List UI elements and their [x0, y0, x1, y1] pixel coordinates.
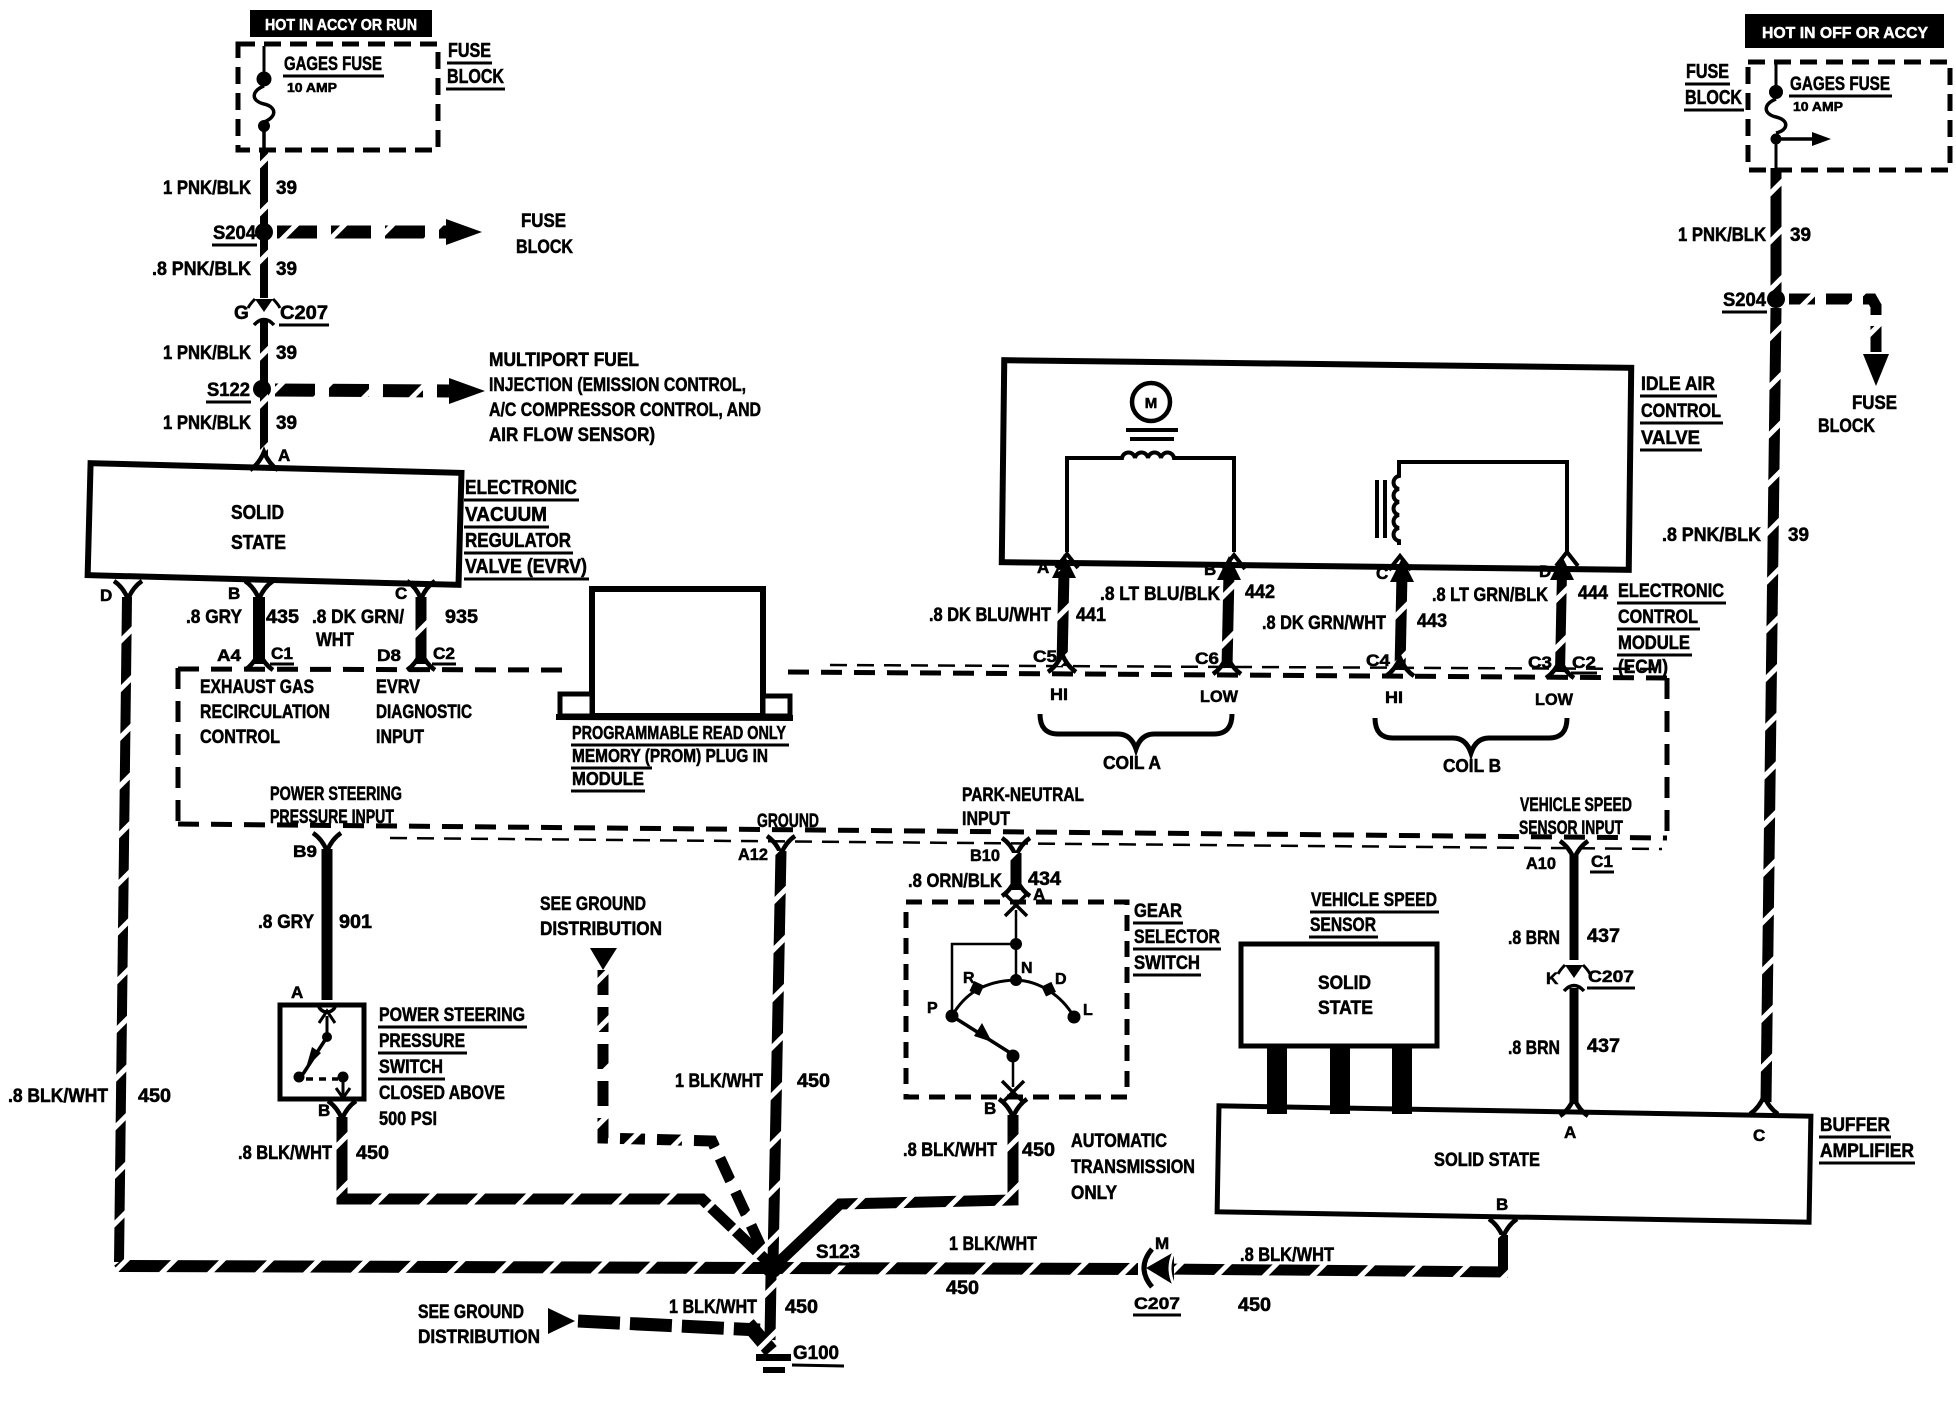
- svg-text:HI: HI: [1385, 688, 1403, 707]
- svg-text:ELECTRONIC: ELECTRONIC: [465, 477, 577, 499]
- label .8 BLK/WHT 450 (PS switch wire): [238, 1143, 389, 1164]
- label POWER STEERING PRESSURE INPUT (ECM): [270, 784, 402, 828]
- wire .8 ORN/BLK 434 (ECM B10 to gear selector A): [1011, 853, 1022, 890]
- svg-text:M: M: [1145, 395, 1158, 412]
- svg-text:.8 PNK/BLK: .8 PNK/BLK: [1662, 525, 1761, 546]
- label .8 BRN 437 (lower): [1508, 1036, 1620, 1059]
- svg-text:D: D: [100, 586, 112, 605]
- ECM dashed box top edge (left of PROM): [178, 669, 563, 670]
- svg-text:.8 LT BLU/BLK: .8 LT BLU/BLK: [1100, 584, 1220, 605]
- fuse block label (left): [446, 40, 505, 89]
- pin B10 (ECM): [970, 838, 1030, 865]
- label VEHICLE SPEED SENSOR INPUT (ECM): [1519, 795, 1632, 839]
- PROM plug-in module: [556, 589, 793, 718]
- label SEE GROUND DISTRIBUTION (bottom): [418, 1302, 540, 1348]
- svg-text:A10: A10: [1526, 854, 1556, 873]
- svg-text:D: D: [1539, 562, 1551, 581]
- VSS to buffer connection bars: [1267, 1046, 1412, 1114]
- label MULTIPORT FUEL INJECTION: [489, 350, 761, 446]
- svg-text:N: N: [1021, 960, 1033, 977]
- wire 1 BLK/WHT 450 (S123 to C207 M): [776, 1268, 1138, 1269]
- label 1 PNK/BLK 39 (right): [1678, 225, 1811, 246]
- ground G100: [748, 1324, 844, 1373]
- pin C5 (ECM): [1033, 647, 1076, 672]
- svg-text:B: B: [1496, 1195, 1508, 1214]
- svg-text:C6: C6: [1195, 649, 1219, 668]
- svg-text:MODULE: MODULE: [1618, 633, 1690, 654]
- ECM top edge scan double line: [830, 665, 1660, 669]
- label ELECTRONIC VACUUM REGULATOR VALVE (EVRV): [464, 477, 589, 579]
- svg-text:S204: S204: [213, 223, 256, 244]
- pin D (IACV): [1539, 552, 1578, 581]
- svg-text:A/C COMPRESSOR CONTROL, AND: A/C COMPRESSOR CONTROL, AND: [489, 400, 761, 421]
- label SOLID STATE (EVRV): [231, 502, 286, 554]
- wire .8 DK BLU/WHT 441 (IACV A to ECM C5): [1052, 554, 1076, 666]
- svg-text:450: 450: [797, 1071, 830, 1092]
- coil A brace: [1040, 714, 1232, 749]
- svg-text:C2: C2: [433, 644, 455, 663]
- svg-text:SEE GROUND: SEE GROUND: [418, 1302, 524, 1323]
- svg-text:MODULE: MODULE: [572, 769, 644, 789]
- label PROGRAMMABLE READ ONLY MEMORY (PROM) PLUG IN MODULE: [571, 723, 789, 791]
- wire .8 BLK/WHT 450 (PS switch B to S123): [342, 1117, 770, 1264]
- svg-text:500 PSI: 500 PSI: [379, 1109, 437, 1130]
- svg-text:VACUUM: VACUUM: [465, 504, 547, 526]
- svg-text:(ECM): (ECM): [1618, 657, 1668, 678]
- svg-text:BLOCK: BLOCK: [1818, 416, 1875, 437]
- pin B (IACV): [1204, 555, 1245, 579]
- svg-text:.8 LT GRN/BLK: .8 LT GRN/BLK: [1432, 585, 1548, 606]
- coil B winding (IACV): [1377, 462, 1567, 552]
- label IDLE AIR CONTROL VALVE: [1640, 374, 1723, 450]
- wire .8 PNK/BLK 39 (S204 to buffer amplifier C): [1766, 308, 1776, 1102]
- svg-text:COIL B: COIL B: [1443, 756, 1501, 776]
- ECM dashed box left edge: [176, 668, 181, 827]
- wire .8 DK GRN/WHT 935 (EVRV C to ECM D8): [416, 597, 427, 664]
- label BUFFER AMPLIFIER: [1819, 1115, 1915, 1163]
- pin A10 C1 (ECM): [1526, 841, 1614, 873]
- svg-text:.8 BRN: .8 BRN: [1508, 1038, 1560, 1059]
- pin B (PS switch): [318, 1101, 356, 1120]
- pin A (buffer amplifier): [1560, 1098, 1588, 1142]
- svg-text:S123: S123: [816, 1242, 860, 1263]
- svg-text:C207: C207: [1134, 1294, 1180, 1313]
- svg-text:RECIRCULATION: RECIRCULATION: [200, 702, 330, 723]
- pin C (buffer amplifier): [1750, 1096, 1778, 1145]
- svg-text:S122: S122: [207, 380, 250, 401]
- svg-text:B10: B10: [970, 846, 1000, 865]
- label .8 PNK/BLK 39 (right long wire): [1662, 525, 1809, 546]
- svg-text:COIL A: COIL A: [1103, 753, 1161, 773]
- pin A12 (ECM): [738, 836, 795, 864]
- splice S204 (right): [1722, 290, 1785, 312]
- label 1 PNK/BLK 39: [163, 343, 297, 364]
- svg-text:AUTOMATIC: AUTOMATIC: [1071, 1131, 1167, 1152]
- svg-text:1 PNK/BLK: 1 PNK/BLK: [1678, 225, 1766, 246]
- svg-text:B9: B9: [293, 842, 317, 861]
- svg-text:1 PNK/BLK: 1 PNK/BLK: [163, 343, 251, 364]
- svg-text:A: A: [278, 446, 290, 465]
- idle air control valve box: [1002, 360, 1631, 570]
- svg-text:C: C: [1753, 1126, 1765, 1145]
- label SEE GROUND DISTRIBUTION (top): [540, 894, 662, 940]
- svg-text:.8 BLK/WHT: .8 BLK/WHT: [903, 1140, 997, 1161]
- label 1 PNK/BLK 39: [163, 178, 297, 199]
- pin D (EVRV): [100, 581, 142, 605]
- svg-text:CONTROL: CONTROL: [1618, 607, 1698, 628]
- power label HOT IN OFF OR ACCY: [1745, 14, 1944, 48]
- svg-text:441: 441: [1076, 605, 1106, 626]
- ECM dashed box right edge: [1665, 678, 1670, 838]
- coil B brace: [1375, 718, 1567, 753]
- wire 1 PNK/BLK 39 (C207 to S122): [260, 320, 268, 385]
- svg-text:C1: C1: [271, 644, 293, 663]
- svg-text:EXHAUST GAS: EXHAUST GAS: [200, 677, 314, 698]
- label PARK-NEUTRAL INPUT (ECM): [962, 785, 1084, 830]
- svg-text:.8 BLK/WHT: .8 BLK/WHT: [8, 1086, 108, 1107]
- ECM bottom edge scan double line: [390, 838, 1662, 849]
- label .8 LT BLU/BLK 442: [1100, 582, 1275, 605]
- connector C207 pin G: [234, 299, 329, 325]
- svg-text:G100: G100: [793, 1343, 839, 1364]
- label .8 BLK/WHT 450 (left wire): [8, 1086, 171, 1107]
- svg-text:GAGES FUSE: GAGES FUSE: [284, 54, 382, 75]
- wire .8 LT GRN/BLK 444 (IACV D to ECM C3): [1550, 556, 1574, 672]
- svg-text:A: A: [1037, 558, 1049, 577]
- label ELECTRONIC CONTROL MODULE (ECM): [1617, 581, 1726, 678]
- svg-text:PARK-NEUTRAL: PARK-NEUTRAL: [962, 785, 1084, 806]
- svg-text:GROUND: GROUND: [757, 811, 819, 832]
- fuse F2 GAGES 10A (right) symbol: [1766, 64, 1831, 168]
- svg-text:B: B: [318, 1101, 330, 1120]
- label EVRV DIAGNOSTIC INPUT (ECM): [376, 677, 472, 748]
- wire .8 DK GRN/WHT 443 (IACV C to ECM C4): [1390, 558, 1414, 670]
- svg-text:1 BLK/WHT: 1 BLK/WHT: [669, 1297, 757, 1318]
- svg-text:FUSE: FUSE: [1852, 393, 1897, 414]
- ECM dashed box top edge (right of PROM): [788, 672, 1667, 678]
- svg-text:WHT: WHT: [316, 630, 354, 651]
- svg-text:VALVE (EVRV): VALVE (EVRV): [465, 556, 587, 578]
- PS switch contacts: [294, 1011, 351, 1098]
- svg-text:DISTRIBUTION: DISTRIBUTION: [540, 919, 662, 940]
- svg-text:SOLID: SOLID: [231, 502, 284, 524]
- svg-text:444: 444: [1578, 583, 1608, 604]
- svg-text:FUSE: FUSE: [448, 40, 491, 62]
- svg-text:C3: C3: [1528, 653, 1552, 672]
- label .8 PNK/BLK 39: [152, 259, 297, 280]
- svg-text:450: 450: [1022, 1140, 1055, 1161]
- svg-text:VEHICLE SPEED: VEHICLE SPEED: [1520, 795, 1632, 816]
- pin B (EVRV): [228, 581, 273, 603]
- ground distribution arrow (bottom): [548, 1308, 575, 1334]
- label .8 LT GRN/BLK 444: [1432, 583, 1608, 606]
- svg-text:CONTROL: CONTROL: [1641, 401, 1721, 422]
- svg-text:BUFFER: BUFFER: [1820, 1115, 1890, 1136]
- svg-text:SEE GROUND: SEE GROUND: [540, 894, 646, 915]
- svg-text:INPUT: INPUT: [962, 809, 1010, 830]
- svg-text:450: 450: [785, 1297, 818, 1318]
- svg-text:435: 435: [266, 607, 299, 628]
- wire .8 BLK/WHT 450 (EVRV D down left side): [119, 597, 127, 1262]
- label .8 GRY 901: [258, 912, 372, 933]
- gages fuse label (right): [1789, 74, 1892, 114]
- svg-text:C: C: [1376, 564, 1388, 583]
- svg-text:C: C: [395, 584, 407, 603]
- label .8 ORN/BLK 434: [908, 869, 1061, 892]
- svg-text:STATE: STATE: [1318, 998, 1373, 1019]
- svg-text:442: 442: [1245, 582, 1275, 603]
- wire 1 PNK/BLK 39 (fuse to S204): [260, 148, 268, 229]
- svg-text:POWER STEERING: POWER STEERING: [270, 784, 402, 805]
- svg-text:BLOCK: BLOCK: [516, 237, 573, 258]
- svg-text:REGULATOR: REGULATOR: [465, 530, 571, 552]
- svg-text:MEMORY (PROM) PLUG IN: MEMORY (PROM) PLUG IN: [572, 746, 768, 766]
- svg-text:SOLID: SOLID: [1318, 973, 1371, 994]
- pin B9 (ECM): [293, 833, 341, 861]
- pin A (gear selector): [1002, 878, 1045, 904]
- svg-text:SOLID STATE: SOLID STATE: [1434, 1150, 1540, 1171]
- svg-text:C207: C207: [280, 303, 328, 324]
- svg-text:.8 PNK/BLK: .8 PNK/BLK: [152, 259, 251, 280]
- gear selector switch dashed box: [906, 902, 1127, 1097]
- label .8 BRN 437 (upper): [1508, 926, 1620, 949]
- svg-text:.8 BLK/WHT: .8 BLK/WHT: [1240, 1245, 1334, 1266]
- EVRV module box (solid state): [88, 463, 462, 585]
- svg-text:C207: C207: [1588, 967, 1634, 986]
- svg-text:10 AMP: 10 AMP: [1793, 99, 1843, 114]
- svg-text:D: D: [1055, 971, 1067, 988]
- svg-text:D8: D8: [377, 646, 401, 665]
- label POWER STEERING PRESSURE SWITCH CLOSED ABOVE 500 PSI: [378, 1005, 527, 1130]
- wire S204 to fuse block (dashed arrow): [277, 219, 482, 245]
- svg-text:BLOCK: BLOCK: [1685, 87, 1742, 109]
- svg-text:C1: C1: [1591, 852, 1613, 871]
- fuse block (right) dashed box: [1748, 62, 1950, 170]
- svg-text:A: A: [291, 983, 303, 1002]
- ECM dashed box bottom edge: [178, 824, 1667, 838]
- pin C4 (ECM): [1366, 651, 1414, 676]
- svg-text:39: 39: [1790, 225, 1811, 246]
- svg-text:M: M: [1155, 1234, 1169, 1253]
- label VEHICLE SPEED SENSOR: [1309, 890, 1439, 937]
- svg-text:.8 ORN/BLK: .8 ORN/BLK: [908, 871, 1002, 892]
- connector C207 pin M: [1133, 1234, 1181, 1315]
- svg-text:POWER STEERING: POWER STEERING: [379, 1005, 525, 1026]
- svg-text:DIAGNOSTIC: DIAGNOSTIC: [376, 702, 472, 723]
- label 1 PNK/BLK 39: [163, 413, 297, 434]
- splice S123: [762, 1242, 861, 1278]
- svg-text:S204: S204: [1723, 290, 1766, 311]
- svg-text:.8 DK GRN/WHT: .8 DK GRN/WHT: [1262, 613, 1386, 634]
- ground distribution arrow (top): [590, 948, 617, 970]
- power label HOT IN ACCY OR RUN: [250, 10, 432, 37]
- svg-text:39: 39: [276, 413, 297, 434]
- svg-text:39: 39: [276, 343, 297, 364]
- svg-text:STATE: STATE: [231, 532, 286, 554]
- wire S204 to fuse block (right, dashed elbow arrow): [1789, 299, 1889, 386]
- label .8 DK GRN/WHT 443: [1262, 611, 1447, 634]
- label FUSE BLOCK (arrow destination): [516, 211, 573, 258]
- svg-text:.8 GRY: .8 GRY: [258, 912, 314, 933]
- wire 1 BLK/WHT 450 (S123 to G100): [770, 1276, 771, 1340]
- svg-text:.8 BLK/WHT: .8 BLK/WHT: [238, 1143, 332, 1164]
- wire .8 BRN 437 (ECM A10 to C207 K): [1570, 855, 1579, 960]
- wire .8 BLK/WHT 450 (gear selector B to S123): [778, 1115, 1013, 1263]
- svg-text:901: 901: [339, 912, 372, 933]
- svg-text:437: 437: [1587, 926, 1620, 947]
- svg-text:SWITCH: SWITCH: [1134, 953, 1200, 974]
- svg-text:HI: HI: [1050, 685, 1068, 704]
- svg-text:.8 DK BLU/WHT: .8 DK BLU/WHT: [929, 605, 1051, 626]
- label .8 DK BLU/WHT 441: [929, 605, 1106, 626]
- svg-text:VEHICLE SPEED: VEHICLE SPEED: [1311, 890, 1437, 911]
- pin A (EVRV): [250, 446, 290, 470]
- svg-text:EVRV: EVRV: [376, 677, 420, 698]
- svg-text:C4: C4: [1366, 651, 1391, 670]
- svg-text:B: B: [228, 584, 240, 603]
- wire .8 LT BLU/BLK 442 (IACV B to ECM C6): [1217, 556, 1241, 668]
- fuse block (left) dashed box: [238, 44, 438, 150]
- wire 1 BLK/WHT 450 (ECM A12 to S123): [773, 851, 781, 1263]
- svg-text:450: 450: [138, 1086, 171, 1107]
- svg-text:AMPLIFIER: AMPLIFIER: [1820, 1141, 1914, 1162]
- power steering pressure switch box: [280, 1005, 364, 1099]
- vehicle speed sensor box (solid state): [1241, 944, 1437, 1046]
- svg-text:437: 437: [1587, 1036, 1620, 1057]
- svg-text:39: 39: [1788, 525, 1809, 546]
- svg-text:MULTIPORT FUEL: MULTIPORT FUEL: [489, 350, 639, 371]
- svg-text:ELECTRONIC: ELECTRONIC: [1618, 581, 1724, 602]
- svg-text:10 AMP: 10 AMP: [287, 80, 337, 95]
- svg-text:SELECTOR: SELECTOR: [1134, 927, 1220, 948]
- svg-text:CONTROL: CONTROL: [200, 727, 280, 748]
- pin D8 C2 (ECM): [377, 644, 456, 670]
- svg-text:C2: C2: [1572, 653, 1596, 672]
- pin B (buffer amplifier): [1489, 1195, 1517, 1237]
- wire to ground distribution (dashed, top): [603, 970, 768, 1262]
- wire 1 PNK/BLK 39 (S122 to EVRV pin A): [260, 393, 268, 455]
- svg-text:INJECTION (EMISSION CONTROL,: INJECTION (EMISSION CONTROL,: [489, 375, 746, 396]
- coil A winding (IACV): [1067, 453, 1234, 552]
- pin A4 C1 (ECM): [217, 644, 294, 670]
- svg-text:ONLY: ONLY: [1071, 1183, 1117, 1204]
- svg-text:LOW: LOW: [1535, 690, 1574, 709]
- wire main ground bus (left to S123): [119, 1262, 768, 1268]
- label .8 BLK/WHT (right horizontal): [1238, 1245, 1334, 1316]
- svg-text:450: 450: [356, 1143, 389, 1164]
- pin A (PS switch): [291, 983, 336, 1012]
- svg-text:G: G: [234, 303, 249, 324]
- svg-text:C5: C5: [1033, 647, 1057, 666]
- wire .8 GRY 435 (EVRV B to ECM A4): [253, 597, 265, 664]
- wire .8 BLK/WHT 450 (buffer B down): [1498, 1235, 1508, 1273]
- pin B (gear selector): [984, 1099, 1027, 1118]
- svg-text:HOT IN OFF OR ACCY: HOT IN OFF OR ACCY: [1762, 25, 1928, 42]
- splice S204: [212, 223, 273, 245]
- svg-text:FUSE: FUSE: [1686, 61, 1729, 83]
- svg-text:SENSOR INPUT: SENSOR INPUT: [1519, 818, 1623, 839]
- svg-text:SWITCH: SWITCH: [379, 1057, 443, 1078]
- svg-text:INPUT: INPUT: [376, 727, 424, 748]
- svg-text:LOW: LOW: [1200, 687, 1239, 706]
- label EXHAUST GAS RECIRCULATION CONTROL (ECM): [200, 677, 330, 748]
- svg-text:1 PNK/BLK: 1 PNK/BLK: [163, 178, 251, 199]
- svg-text:1 BLK/WHT: 1 BLK/WHT: [949, 1234, 1037, 1255]
- svg-text:SENSOR: SENSOR: [1310, 915, 1376, 936]
- svg-text:A4: A4: [217, 646, 242, 665]
- svg-text:L: L: [1083, 1002, 1093, 1019]
- motor M symbol (IACV): [1126, 383, 1178, 439]
- svg-text:K: K: [1546, 969, 1559, 988]
- svg-text:HOT IN ACCY OR RUN: HOT IN ACCY OR RUN: [265, 17, 417, 34]
- svg-text:.8 BRN: .8 BRN: [1508, 928, 1560, 949]
- svg-text:39: 39: [276, 259, 297, 280]
- svg-text:B: B: [984, 1099, 996, 1118]
- pin C3 C2 (ECM): [1528, 653, 1597, 678]
- svg-text:.8 GRY: .8 GRY: [186, 607, 242, 628]
- wire 1 PNK/BLK 39 (right fuse to S204): [1771, 168, 1782, 296]
- svg-text:GAGES FUSE: GAGES FUSE: [1790, 74, 1890, 95]
- label 1 BLK/WHT 450 (ground wire): [669, 1297, 818, 1318]
- svg-text:DISTRIBUTION: DISTRIBUTION: [418, 1327, 540, 1348]
- pin C (EVRV): [395, 581, 435, 603]
- svg-text:.8 DK GRN/: .8 DK GRN/: [312, 607, 405, 628]
- wire S122 to multiport fuel injection (dashed arrow): [275, 378, 485, 404]
- label SOLID STATE (VSS): [1318, 973, 1373, 1019]
- svg-text:GEAR: GEAR: [1134, 901, 1182, 922]
- label 1 BLK/WHT 450 (A12 wire): [675, 1071, 830, 1092]
- pin A (IACV): [1037, 554, 1078, 577]
- svg-text:1 BLK/WHT: 1 BLK/WHT: [675, 1071, 763, 1092]
- svg-text:450: 450: [1238, 1295, 1271, 1316]
- svg-text:CLOSED ABOVE: CLOSED ABOVE: [379, 1083, 505, 1104]
- fuse block label (right): [1684, 61, 1744, 110]
- svg-text:935: 935: [445, 607, 478, 628]
- svg-text:39: 39: [276, 178, 297, 199]
- label FUSE BLOCK (right arrow destination): [1818, 393, 1897, 437]
- svg-text:1 PNK/BLK: 1 PNK/BLK: [163, 413, 251, 434]
- svg-text:IDLE AIR: IDLE AIR: [1641, 374, 1715, 395]
- wire .8 GRY 901 (ECM B9 to PS switch A): [322, 849, 333, 1000]
- pin C (IACV): [1376, 556, 1411, 583]
- wire to ground distribution (dashed, bottom): [578, 1321, 760, 1330]
- label AUTOMATIC TRANSMISSION ONLY: [1071, 1131, 1195, 1204]
- connector C207 pin K: [1546, 965, 1635, 991]
- label .8 DK GRN/WHT 935: [312, 607, 478, 651]
- wire .8 BLK/WHT 450 (C207 M to buffer B): [1162, 1269, 1508, 1272]
- splice S122: [206, 380, 271, 402]
- svg-text:VALVE: VALVE: [1641, 428, 1700, 449]
- label GEAR SELECTOR SWITCH: [1133, 901, 1221, 975]
- svg-text:PRESSURE: PRESSURE: [379, 1031, 465, 1052]
- wire .8 PNK/BLK 39 (S204 to C207): [260, 240, 268, 298]
- label .8 GRY 435: [186, 607, 299, 628]
- svg-text:FUSE: FUSE: [521, 211, 566, 232]
- fuse F1 GAGES 10A (left) symbol: [254, 46, 274, 148]
- gear selector switch contacts: [946, 894, 1081, 1103]
- label 1 BLK/WHT 450 (S123 to C207): [946, 1234, 1037, 1299]
- svg-text:A12: A12: [738, 845, 768, 864]
- svg-text:PROGRAMMABLE READ ONLY: PROGRAMMABLE READ ONLY: [572, 723, 786, 743]
- label .8 BLK/WHT 450 (gear selector wire): [903, 1140, 1055, 1161]
- wire .8 BRN 437 (C207 K to buffer amplifier A): [1570, 988, 1579, 1104]
- pin C6 (ECM): [1195, 649, 1241, 674]
- svg-text:A: A: [1564, 1123, 1576, 1142]
- buffer amplifier box (solid state): [1217, 1106, 1811, 1222]
- svg-text:P: P: [927, 1000, 938, 1017]
- gages fuse label (left): [283, 54, 384, 95]
- svg-text:TRANSMISSION: TRANSMISSION: [1071, 1157, 1195, 1178]
